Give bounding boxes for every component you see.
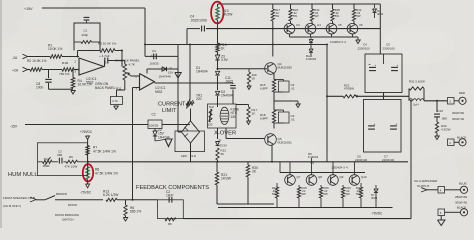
capacitor C12 100/25 box (148, 120, 162, 129)
resistor R4 (71, 78, 75, 89)
wire box to Z2 (154, 129, 156, 132)
svg-text:BROWN: BROWN (56, 192, 67, 196)
wire feedback top (78, 50, 101, 52)
op-amp U1B 1/2 IC1 5532 (140, 74, 155, 91)
wire lower input (27, 69, 30, 71)
svg-text:150: 150 (231, 115, 237, 119)
transistor Q4 MJE15030 (265, 63, 277, 75)
ground right of bus (357, 37, 359, 40)
ground below R6 (125, 216, 127, 218)
input terminal arrow upper (23, 54, 28, 59)
capacitor C13 .068 (58, 158, 60, 164)
resistor R19 bottom col1 (276, 183, 278, 187)
wire RL loop (408, 89, 410, 101)
resistor R25b bottom col2 (298, 185, 300, 187)
diode D4 1N4004 top right (374, 4, 376, 8)
svg-text:CURRENT: CURRENT (158, 102, 186, 108)
svg-text:200W 8Ω: 200W 8Ω (452, 111, 465, 115)
wire feed to caps (379, 4, 381, 54)
wire C8 bottom (48, 83, 50, 89)
svg-text:C2: C2 (152, 113, 156, 117)
svg-text:ON BACK PANEL: ON BACK PANEL (115, 59, 140, 63)
svg-text:750 1%: 750 1% (59, 72, 70, 76)
zener Z1 15V 1N4744A (162, 67, 167, 71)
wire -15V rail (25, 124, 148, 126)
capacitor C8 (45, 78, 51, 80)
svg-text:-76VDC: -76VDC (371, 212, 383, 216)
svg-text:-76VDC: -76VDC (80, 191, 92, 195)
svg-text:U3: U3 (296, 23, 300, 27)
svg-text:R6: R6 (168, 222, 172, 226)
svg-text:100/25: 100/25 (150, 62, 160, 66)
wire hum box mid (38, 161, 43, 163)
svg-text:R2 10.0K 1%: R2 10.0K 1% (27, 59, 46, 63)
svg-text:5W: 5W (335, 14, 340, 18)
svg-text:R3 10.0K 1%: R3 10.0K 1% (98, 42, 116, 46)
svg-text:MJE15031: MJE15031 (278, 140, 293, 144)
resistor R25 col4 (332, 4, 334, 9)
svg-text:4.7K: 4.7K (129, 63, 136, 67)
wire bias line y162 (88, 161, 408, 163)
svg-text:MONO: MONO (68, 203, 78, 207)
resistor R2 (30, 68, 42, 72)
wire R20 bottom (247, 177, 249, 204)
resistor R31 5.6/2W (409, 87, 424, 90)
svg-text:V5: V5 (338, 23, 342, 27)
transistor V6 top row 4 (353, 21, 355, 24)
svg-text:TH2: TH2 (44, 157, 50, 161)
connector pin 4 box (438, 187, 445, 194)
svg-text:OUTPUT: OUTPUT (417, 184, 430, 188)
svg-text:Q7: Q7 (297, 175, 301, 179)
wire R1R to op-amp (74, 69, 79, 71)
svg-text:5W: 5W (346, 192, 351, 196)
capacitor C4 .0022/100S (201, 26, 203, 32)
wire +15V rail (42, 7, 145, 9)
wire cap boxes mid stubs (383, 93, 385, 100)
svg-text:2200/100: 2200/100 (383, 46, 395, 50)
resistor 4.7k box (111, 97, 123, 105)
svg-text:6.8PF: 6.8PF (260, 86, 268, 90)
wire vertical x190 (189, 45, 191, 100)
wire horizontal y44 long (145, 44, 327, 46)
svg-text:-15V: -15V (10, 125, 18, 129)
resistor R32 4.3/2W (436, 117, 438, 122)
svg-text:LED: LED (181, 154, 188, 158)
transistor V4 top row 2 (311, 21, 313, 24)
svg-text:100: 100 (208, 123, 213, 127)
svg-text:+: + (396, 123, 398, 127)
ground below Z2 (155, 139, 168, 141)
svg-text:10.0K 1%: 10.0K 1% (48, 47, 62, 51)
node junction on output rail (356, 95, 358, 97)
transistor Q8 bottom row 2 (311, 162, 313, 175)
wire feedback vertical (132, 88, 134, 200)
wire op-amp2 output (155, 82, 234, 84)
svg-text:MONO BRIDGING: MONO BRIDGING (55, 213, 80, 217)
transistor V5 top row 3 (332, 21, 334, 24)
transistor Q9 bottom row 3 (332, 162, 334, 175)
svg-text:+: + (397, 64, 399, 68)
wire Q5 emitter (271, 145, 273, 162)
ground below R4 (71, 91, 76, 95)
svg-text:1N4004: 1N4004 (221, 94, 233, 98)
diode D4a 1N4004 (310, 45, 312, 49)
svg-text:220: 220 (196, 97, 202, 101)
connector pin 5 box (438, 209, 445, 216)
svg-text:5W: 5W (293, 14, 298, 18)
svg-text:BACK PANEL: BACK PANEL (95, 86, 116, 90)
resistor R17 2K (248, 105, 250, 108)
wire C4 to transistor row rail (206, 28, 380, 30)
wire bridge bottom (190, 143, 192, 162)
svg-text:BLUE: BLUE (459, 182, 467, 186)
wire op-amp output (103, 66, 106, 68)
wire Q4 base (218, 68, 268, 70)
wire R8 bottom arrow (87, 180, 89, 185)
wire vertical x176 (177, 45, 179, 133)
wire arrow to pin4 (421, 188, 427, 192)
svg-text:665 1%: 665 1% (130, 210, 141, 214)
svg-text:+15V: +15V (24, 7, 33, 11)
svg-text:Q10: Q10 (361, 175, 367, 179)
wire C11 branch (232, 83, 234, 84)
svg-text:2200/100: 2200/100 (355, 158, 367, 162)
resistor R26 bottom col3 (320, 185, 322, 187)
capacitor C9 box upper (279, 81, 290, 92)
svg-text:(CH B ONLY): (CH B ONLY) (3, 204, 21, 208)
diode D2 1N4004 (215, 91, 219, 95)
resistor R7 47.5K (86, 146, 89, 156)
svg-text:1K/2W: 1K/2W (221, 177, 232, 181)
wire bridge top to TR1 (190, 109, 192, 122)
svg-text:1N3054 X 4: 1N3054 X 4 (330, 40, 346, 44)
ground below R32 (436, 133, 438, 136)
wire outer box right edge (410, 101, 412, 219)
wire R4 top (72, 70, 74, 78)
resistor R1R (62, 68, 74, 72)
trimmer TR1 220 (187, 99, 191, 109)
thermistor box X-OVER (208, 104, 237, 128)
svg-text:MJE15030: MJE15030 (278, 65, 293, 69)
connector pin 3 box (448, 98, 455, 105)
resistor R18 6.8 (272, 110, 275, 123)
svg-text:+ 4.7uF: + 4.7uF (99, 54, 110, 58)
resistor R9 47K (66, 160, 78, 163)
wire supply arrow down (86, 136, 90, 140)
svg-text:Z3.9V: Z3.9V (220, 144, 228, 148)
transistor V3 top row 1 (290, 21, 292, 24)
ground at loop corner (177, 69, 179, 73)
wire upper input (27, 56, 50, 58)
svg-text:2K: 2K (252, 111, 256, 115)
wire R2 to R1R (42, 69, 62, 71)
svg-text:+: + (375, 64, 377, 68)
resistor R5 in loop bottom (81, 41, 92, 44)
resistor R6 665 1% (125, 200, 127, 205)
resistor R30 bottom col5 (360, 183, 362, 187)
supply loop C3/Z1 (145, 55, 178, 57)
diode D7 4004 (375, 185, 377, 188)
wire vertical x327 (326, 44, 328, 162)
resistor R21 1K/2W (216, 162, 218, 172)
wire R21 bottom (216, 185, 218, 204)
svg-text:.068: .068 (441, 117, 447, 121)
capacitor E2 4.7uF (104, 58, 106, 64)
wire feedback right leg (115, 50, 122, 52)
svg-text:TH2: TH2 (209, 105, 215, 109)
wire Q5 base (226, 138, 265, 140)
optocoupler box (175, 131, 205, 152)
wire bridge left (178, 131, 182, 133)
svg-text:FEEDBACK COMPONENTS: FEEDBACK COMPONENTS (136, 185, 209, 191)
svg-text:6.8PF: 6.8PF (260, 116, 268, 120)
svg-text:280W 8Ω: 280W 8Ω (455, 195, 468, 199)
svg-text:.01: .01 (291, 86, 296, 90)
feedback loop C1/R5 (74, 23, 100, 51)
resistor R13 1K (216, 43, 219, 52)
input terminal arrow lower (23, 67, 28, 72)
svg-text:.01: .01 (291, 117, 296, 121)
potentiometer R11 GAIN (123, 64, 127, 80)
svg-text:100/25: 100/25 (149, 123, 159, 127)
resistor R55 430 (248, 69, 250, 72)
capacitor C9 box lower (279, 112, 290, 123)
wire output mid rail (327, 95, 343, 97)
wire lamp box to R17 (236, 104, 249, 106)
trimmer TH2 100 (209, 109, 212, 122)
zener Z2 15V 1N4744 (153, 131, 157, 136)
capacitor C2 18uF loop (158, 200, 184, 219)
svg-text:+2A: +2A (12, 69, 19, 73)
svg-text:4.7k: 4.7k (112, 99, 118, 103)
svg-text:2200/100: 2200/100 (382, 158, 394, 162)
inductor L1 2uH (409, 99, 424, 101)
junction dots (217, 28, 219, 30)
wire outer bottom rail (183, 218, 411, 220)
svg-text:4004: 4004 (371, 196, 378, 200)
svg-text:5W: 5W (302, 192, 307, 196)
capacitor C1 200p (84, 16, 90, 18)
wire rail to Q4 (272, 29, 274, 57)
svg-text:HUM NULL: HUM NULL (8, 172, 38, 178)
diode D1 1N4004 (215, 71, 219, 75)
wire junction down to C8 (48, 70, 50, 79)
svg-text:5532: 5532 (155, 90, 163, 94)
svg-text:47.5K 1/4W 1%: 47.5K 1/4W 1% (93, 149, 116, 153)
svg-text:2uH: 2uH (413, 103, 419, 107)
svg-text:5W: 5W (272, 192, 277, 196)
resistor R14 in loop bottom (165, 218, 176, 221)
svg-text:1K: 1K (252, 76, 256, 80)
svg-text:C10: C10 (438, 109, 444, 113)
wire y204 segment (217, 203, 274, 205)
resistor R1 (50, 55, 62, 59)
svg-text:200p: 200p (82, 33, 89, 37)
svg-text:+: + (374, 123, 376, 127)
wire Q4 emitter down (273, 73, 275, 80)
transistor Q7 bottom row 1 (289, 162, 291, 175)
wire to output terminal (424, 100, 447, 102)
hum null box (38, 143, 88, 176)
wire base bus y172.5 (280, 172, 365, 174)
svg-text:+76VDC: +76VDC (80, 130, 93, 134)
red ellipse annotation around R8 (83, 164, 93, 181)
capacitor C10 .068 (436, 101, 438, 112)
resistor R24 col3 (311, 4, 313, 9)
capacitor C6 C7 bank box bottom (364, 100, 402, 153)
svg-text:300W 4Ω: 300W 4Ω (452, 117, 465, 121)
wire E2 to pot (108, 60, 125, 62)
svg-text:FROM SPEAKER CH B: FROM SPEAKER CH B (3, 196, 35, 200)
switch blade (45, 196, 55, 200)
wire vertical x217 lower (217, 104, 219, 107)
svg-text:5W: 5W (356, 14, 361, 18)
svg-text:Q8: Q8 (318, 175, 322, 179)
wire mid junction y101 (273, 92, 275, 110)
op-amp U1A 1/2 IC1 5532 (79, 58, 104, 75)
svg-text:1N4744A: 1N4744A (159, 74, 172, 78)
wire inner box bottom (218, 207, 393, 209)
transistor Q5 MJE15031 (265, 134, 277, 146)
wire -15V rail continues (162, 124, 190, 126)
svg-text:-2A: -2A (12, 56, 18, 60)
svg-text:2SD424 X 4: 2SD424 X 4 (332, 165, 349, 169)
wire wiper to op-amp2 (131, 75, 140, 77)
wire pot bottom to 4.7k box (124, 80, 126, 90)
svg-text:5532: 5532 (86, 81, 94, 85)
svg-text:3.9V: 3.9V (221, 58, 229, 62)
resistor R3 (100, 49, 115, 53)
wire R10 column down (217, 29, 219, 44)
wire R1 to op-amp (62, 56, 79, 58)
transistor Q10 bottom row 4 (354, 162, 356, 175)
capacitor C4 C5 bank box top (365, 54, 402, 93)
red ellipse annotation around R10 (211, 2, 223, 24)
svg-text:6.2K 1/2W: 6.2K 1/2W (103, 193, 119, 197)
svg-text:RED: RED (459, 91, 465, 95)
svg-text:2200/100: 2200/100 (358, 46, 370, 50)
diode D3 (310, 37, 312, 39)
svg-text:R9: R9 (69, 155, 73, 159)
wire corner to C4 line (186, 29, 188, 45)
resistor R8 47.5K (86, 167, 89, 180)
zener Z3 3.9V (215, 55, 219, 60)
svg-text:47.5K 1/4W 1%: 47.5K 1/4W 1% (95, 171, 118, 175)
left page edge (0, 0, 2, 228)
lamp NTC (220, 107, 229, 124)
svg-text:1N4004: 1N4004 (306, 57, 317, 61)
svg-text:5W: 5W (275, 14, 280, 18)
wire switch input (30, 197, 36, 202)
resistor R27 470/5W (343, 95, 356, 98)
svg-text:47K 1/2W: 47K 1/2W (65, 164, 78, 168)
svg-text:5K: 5K (221, 152, 225, 156)
capacitor C3 100/25 (153, 54, 155, 60)
svg-text:5W: 5W (314, 14, 319, 18)
resistor R15 6.8 (272, 80, 275, 93)
svg-text:.068: .068 (57, 153, 63, 157)
resistor R22 col5 (353, 4, 355, 9)
svg-text:4.3/2W: 4.3/2W (441, 127, 451, 131)
svg-text:470/5W: 470/5W (344, 87, 354, 91)
ground below pin5 (440, 216, 442, 221)
ground below 4.7k box (114, 106, 119, 110)
resistor R16 .22 5W col1 (272, 4, 274, 9)
wire to cap mid node (356, 95, 409, 97)
wire op-amp2 pin3 loop (133, 87, 140, 89)
trimmer TH2 100R (43, 160, 53, 163)
resistor R23 col2 (290, 4, 292, 9)
svg-text:100R: 100R (43, 164, 50, 168)
svg-text:5W: 5W (324, 192, 329, 196)
svg-text:R31 5.6/2W: R31 5.6/2W (409, 80, 425, 84)
svg-text:SWITCH: SWITCH (62, 218, 73, 222)
svg-text:1N4004: 1N4004 (196, 70, 208, 74)
arrow at junction (297, 101, 299, 105)
svg-text:Q9: Q9 (340, 175, 344, 179)
svg-text:300W 4Ω: 300W 4Ω (455, 201, 468, 205)
resistor R13 6.2K 1/2W (106, 198, 117, 201)
wire vertical from +15V rail (144, 8, 146, 56)
svg-text:LIMIT: LIMIT (162, 108, 177, 114)
wire emitter bus y37 (290, 36, 359, 38)
resistor R20 2K (247, 162, 249, 165)
svg-text:.0022/100S: .0022/100S (190, 18, 208, 22)
svg-text:CH A AMPLIFIER: CH A AMPLIFIER (414, 179, 438, 183)
wire to Q5 (273, 123, 275, 129)
svg-text:18uF: 18uF (166, 194, 174, 198)
resistor R12 5K (216, 148, 219, 160)
svg-text:V6: V6 (359, 23, 363, 27)
wire top rail right section (218, 3, 381, 5)
resistor R10 1K/2W (217, 4, 219, 7)
svg-text:U4: U4 (317, 23, 321, 27)
svg-text:R1R: R1R (62, 61, 69, 65)
svg-text:1N4004: 1N4004 (308, 155, 319, 159)
svg-text:100n: 100n (36, 86, 44, 90)
svg-text:.0022: .0022 (225, 80, 233, 84)
svg-text:5W: 5W (356, 192, 361, 196)
zener Z4 3.9V (217, 128, 219, 139)
bridge rectifier with LED (182, 121, 200, 143)
resistor R29 bottom col4 (342, 185, 344, 187)
wire feedback node up (77, 51, 79, 57)
